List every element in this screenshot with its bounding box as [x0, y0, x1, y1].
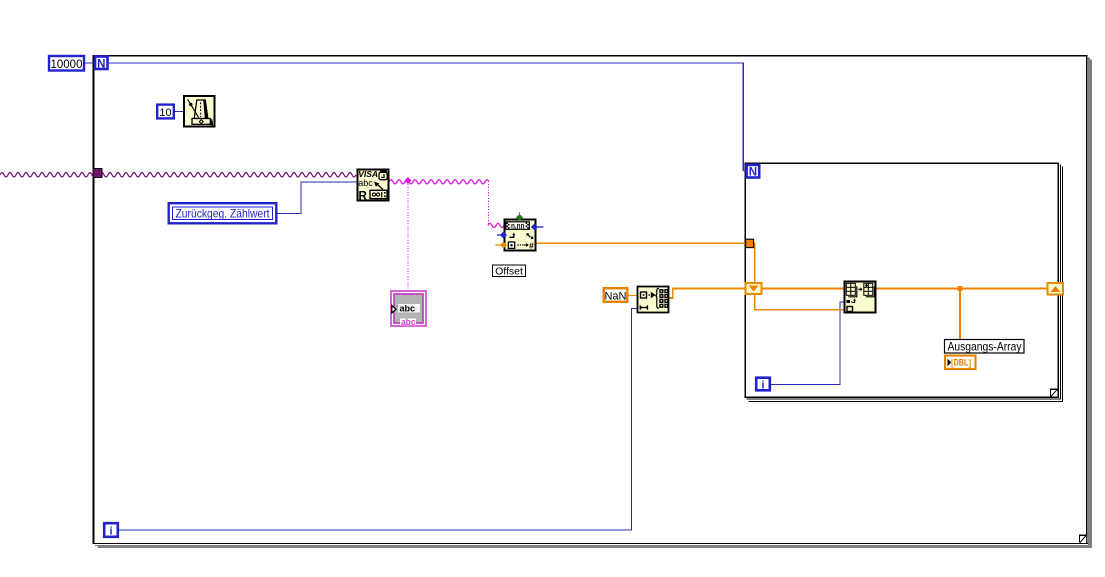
svg-text:Ausgangs-Array: Ausgangs-Array	[948, 339, 1022, 353]
svg-text:abc: abc	[358, 178, 373, 188]
svg-text:Zurückgeg. Zählwert: Zurückgeg. Zählwert	[176, 207, 271, 221]
svg-text:Offset: Offset	[495, 266, 523, 278]
svg-text:abc: abc	[401, 317, 416, 328]
svg-text:N: N	[749, 167, 757, 179]
svg-text:#: #	[529, 240, 534, 250]
svg-text:NaN: NaN	[604, 291, 626, 303]
svg-text:n.nn: n.nn	[511, 222, 525, 231]
svg-text:10: 10	[159, 107, 171, 119]
svg-text:abc: abc	[400, 303, 416, 314]
svg-text:]: ]	[968, 358, 971, 369]
svg-text:i: i	[109, 526, 112, 538]
svg-text:DBL: DBL	[954, 358, 969, 368]
svg-text:10000: 10000	[51, 59, 83, 71]
svg-text:i: i	[761, 380, 764, 392]
svg-text:R: R	[359, 190, 368, 202]
svg-text:N: N	[97, 58, 105, 70]
